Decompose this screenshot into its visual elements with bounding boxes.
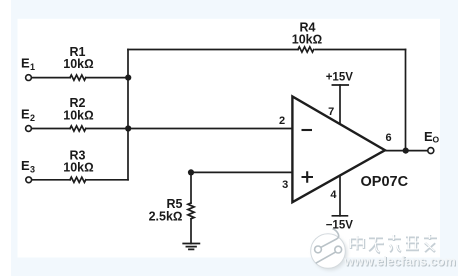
resistor R3	[70, 177, 86, 182]
wire feedback right vertical	[405, 50, 407, 151]
watermark logo node circle left	[315, 246, 322, 253]
terminal E2 circle	[26, 126, 32, 132]
watermark logo node circle right	[335, 246, 342, 253]
svg-text:10kΩ: 10kΩ	[63, 57, 93, 71]
svg-text:O: O	[433, 135, 440, 145]
svg-text:4: 4	[330, 189, 337, 201]
node A junction dot	[125, 75, 131, 81]
terminal E1 circle	[26, 75, 32, 81]
ground	[183, 244, 199, 250]
svg-text:10kΩ: 10kΩ	[63, 109, 93, 123]
watermark logo tail lower	[316, 252, 336, 263]
svg-text:2: 2	[30, 113, 35, 123]
svg-text:2.5kΩ: 2.5kΩ	[149, 210, 183, 224]
terminal E3 circle	[26, 177, 32, 183]
svg-text:10kΩ: 10kΩ	[63, 161, 93, 175]
wire feedback top horizontal	[128, 49, 406, 51]
-15V supply bar	[332, 215, 347, 217]
node B junction dot	[125, 125, 131, 131]
resistor R4	[298, 47, 314, 52]
wire E1 input to node A	[32, 77, 128, 79]
wire E2 input through node B to pin 2	[32, 128, 292, 130]
svg-text:E: E	[21, 55, 30, 70]
resistor R5	[188, 203, 194, 219]
svg-text:3: 3	[282, 179, 288, 191]
wire output pin 6 to E0	[385, 150, 427, 152]
+15V supply bar	[332, 84, 348, 86]
node C junction dot	[188, 169, 194, 175]
wire pin 7 to +15V	[339, 85, 341, 124]
svg-text:10kΩ: 10kΩ	[292, 33, 322, 47]
terminal E0 circle	[428, 148, 434, 154]
resistor R2	[70, 126, 86, 131]
op-amp inverting input minus sign	[302, 129, 313, 131]
op-amp non-inverting input plus sign	[302, 171, 314, 183]
svg-text:−15V: −15V	[326, 220, 354, 232]
svg-text:7: 7	[328, 106, 334, 118]
output node junction dot	[403, 148, 409, 154]
resistor R1	[70, 75, 86, 80]
watermark logo tail upper	[321, 229, 339, 248]
svg-text:E: E	[21, 158, 30, 173]
svg-text:3: 3	[30, 165, 35, 175]
wire E3 input to bus	[32, 179, 128, 181]
wire summing bus vertical	[127, 50, 129, 180]
svg-text:E: E	[21, 107, 30, 122]
svg-text:OP07C: OP07C	[361, 174, 409, 190]
svg-text:www.elecfans.com: www.elecfans.com	[343, 254, 455, 268]
wire R5 to ground	[190, 220, 192, 244]
watermark chinese text strokes	[351, 235, 437, 253]
watermark logo circle	[311, 234, 346, 269]
wire pin 3 to node C	[191, 171, 292, 173]
svg-text:6: 6	[385, 132, 391, 144]
op-amp U1 triangle	[292, 97, 385, 203]
wire node C down to R5	[190, 172, 192, 203]
svg-text:1: 1	[30, 62, 35, 72]
svg-text:+15V: +15V	[326, 72, 354, 84]
watermark logo shadow	[313, 236, 348, 271]
wire pin 4 to -15V	[339, 175, 341, 216]
svg-text:2: 2	[279, 115, 285, 127]
